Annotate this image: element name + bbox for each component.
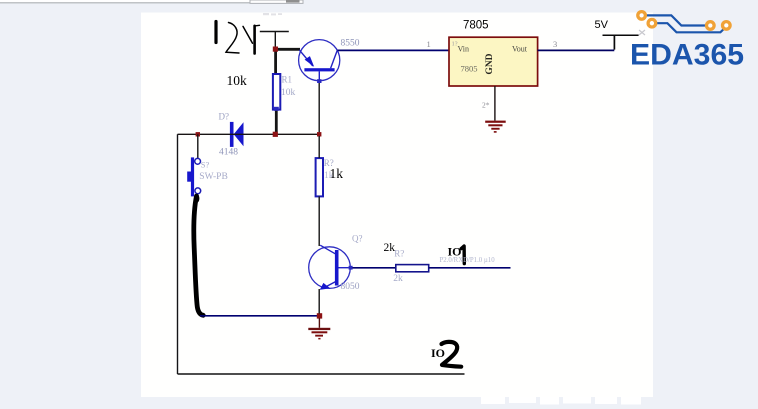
- top UI button: [286, 0, 300, 3]
- hand-drawn 1: [461, 246, 464, 264]
- junction node D: [317, 132, 321, 136]
- wire Q1 collector to U1 pin1 (navy): [338, 49, 450, 51]
- logo pad 4: [723, 22, 731, 30]
- wire node C to switch: [197, 134, 199, 158]
- logo pad 1: [638, 12, 646, 20]
- svg-text:2k: 2k: [384, 242, 396, 254]
- wire bottom rail: [178, 373, 465, 375]
- svg-text:P2.0/RXD/P1.0 µ10: P2.0/RXD/P1.0 µ10: [440, 257, 496, 264]
- transistor Q2 8050: [309, 245, 353, 290]
- wire Q2 emitter to node E: [318, 289, 320, 314]
- hand-drawn 2: [442, 342, 462, 367]
- svg-text:Q?: Q?: [352, 234, 363, 244]
- wire Q1 base down to node B: [318, 83, 320, 133]
- svg-text:8050: 8050: [341, 282, 360, 292]
- power port 5V: [603, 35, 639, 49]
- logo pad 3: [707, 22, 715, 30]
- svg-text:1: 1: [427, 39, 431, 49]
- svg-text:EDA365: EDA365: [630, 39, 744, 72]
- bottom white heading glyph tops on blue: [481, 397, 641, 405]
- svg-text:Vout: Vout: [512, 45, 528, 54]
- resistor R3 1k: [316, 158, 323, 196]
- junction node C: [196, 132, 200, 136]
- wire node to Q1 emitter (thick): [275, 48, 300, 51]
- top UI strip white: [0, 0, 303, 2]
- hand-drawn stroke blob: [194, 194, 199, 202]
- svg-text:S?: S?: [201, 160, 210, 170]
- wire R2 to IO (navy): [429, 267, 511, 269]
- svg-text:5V: 5V: [595, 19, 609, 31]
- faint mark near canvas edge: [639, 30, 645, 35]
- svg-text:GND: GND: [485, 53, 495, 74]
- svg-text:7805: 7805: [463, 20, 489, 32]
- wire Q2 base to R2 (navy): [353, 267, 396, 269]
- wire node down to R1 (thick): [274, 49, 277, 75]
- pin square R1 bottom: [274, 107, 279, 111]
- logo trace B: [657, 23, 726, 32]
- svg-text:3: 3: [553, 39, 557, 49]
- svg-text:1?: 1?: [452, 41, 458, 48]
- wire U1 pin3 to 5V (navy): [538, 49, 615, 51]
- resistor R2 2k: [396, 265, 429, 272]
- switch S1 SW-PB: [187, 157, 201, 196]
- svg-text:10k: 10k: [281, 88, 296, 98]
- hand-drawn 12V annotation: [216, 22, 260, 54]
- faint glyph remnants top of canvas: [263, 13, 282, 15]
- wire top rail: [260, 31, 289, 33]
- wire ground rail y316 (navy): [200, 315, 318, 317]
- wire node D to R3: [318, 136, 320, 158]
- svg-text:8550: 8550: [341, 39, 360, 49]
- junction node A: [273, 47, 278, 52]
- ground symbol under U1: [485, 121, 506, 133]
- white canvas of schematic image: [141, 13, 653, 398]
- ground symbol under Q2: [308, 318, 330, 339]
- logo trace A: [647, 15, 706, 25]
- wire left rail down: [177, 134, 179, 374]
- svg-text:R?: R?: [394, 249, 404, 259]
- diode D1 4148: [230, 122, 244, 147]
- svg-text:1k: 1k: [330, 166, 344, 181]
- resistor R1: [273, 74, 280, 110]
- wire R3 to Q2 collector: [318, 196, 320, 246]
- wire top drop to node: [274, 32, 276, 48]
- svg-text:2k: 2k: [393, 274, 403, 284]
- svg-text:2*: 2*: [482, 101, 490, 110]
- wire R1 bottom to node B (thick): [275, 110, 278, 132]
- wire U1 GND pin down: [494, 86, 496, 121]
- svg-text:4148: 4148: [219, 148, 238, 158]
- svg-text:10k: 10k: [227, 73, 248, 88]
- logo pad 2: [648, 19, 656, 27]
- junction node B: [273, 132, 278, 137]
- svg-text:D?: D?: [219, 112, 230, 122]
- svg-text:Vin: Vin: [458, 45, 470, 54]
- svg-text:IO: IO: [431, 346, 445, 360]
- wire mid rail y134: [178, 133, 320, 135]
- svg-text:R1: R1: [282, 75, 293, 85]
- svg-text:7805: 7805: [461, 64, 478, 74]
- svg-text:SW-PB: SW-PB: [199, 172, 228, 182]
- transistor Q1 8550: [299, 40, 340, 83]
- top UI fragment box: [250, 0, 303, 3]
- regulator U1 7805: [449, 37, 538, 86]
- hand-drawn stroke from switch to bottom wire: [194, 196, 203, 315]
- top UI gray line: [0, 2, 303, 3]
- junction node E: [317, 313, 322, 318]
